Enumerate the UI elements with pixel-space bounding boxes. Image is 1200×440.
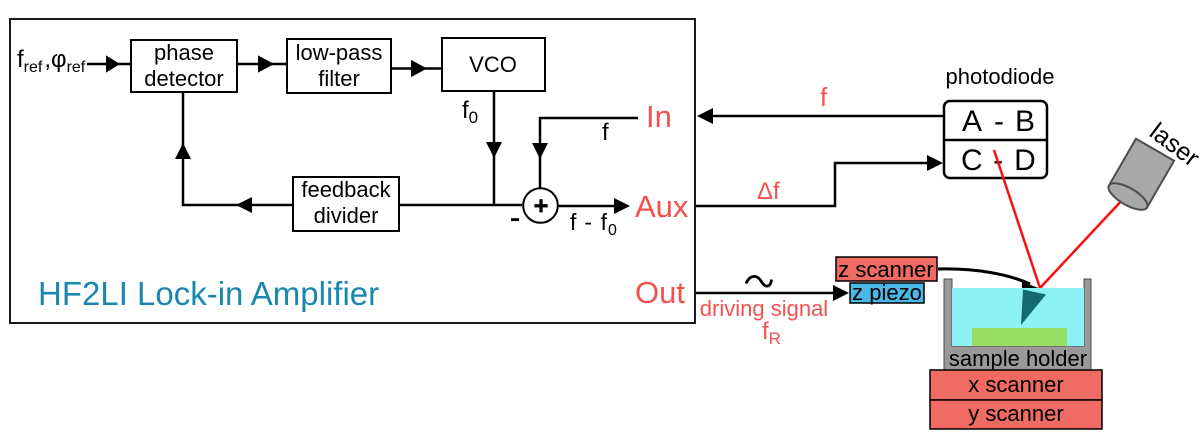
wire phase detector to low-pass filter [237,55,287,72]
box y scanner [930,400,1102,429]
wire feedback up into phase detector (vertical) [175,92,191,206]
wire feedback divider to summing node [399,204,522,207]
wire photodiode A-B to In [697,108,943,124]
wire summing node to Aux [558,198,630,214]
wire Out to z piezo [696,285,849,301]
wire feedback divider to phase detector (horizontal) [182,197,293,213]
svg-text:Δf: Δf [757,178,780,205]
sine symbol on Out wire [746,276,772,286]
box phase detector [131,40,237,92]
box feedback divider [293,177,399,231]
svg-text:sample holder: sample holder [949,346,1087,371]
laser body [1105,139,1174,215]
liquid (cyan) [952,288,1084,346]
wire z scanner to tip (curved) [938,269,1041,292]
wire Aux to photodiode C-D [696,155,943,206]
svg-text:f: f [602,119,609,146]
wire VCO output down to feedback line [486,91,502,206]
svg-text:feedback: feedback [301,177,391,202]
svg-text:x scanner: x scanner [968,372,1063,397]
cantilever tip (dark teal) [1021,290,1046,326]
svg-text:A-B: A-B [962,105,1035,138]
box z scanner [836,257,937,282]
svg-text:filter: filter [318,66,360,91]
svg-text:phase: phase [154,40,214,65]
svg-text:VCO: VCO [469,52,517,77]
box x scanner [930,370,1102,400]
laser beam from laser (red) [1040,197,1125,288]
svg-text:Aux: Aux [635,189,689,224]
laser beam to photodiode (red) [994,150,1040,288]
box low-pass filter [287,39,391,93]
svg-text:z scanner: z scanner [838,257,933,282]
HF2LI lock-in amplifier enclosure box [10,19,695,323]
label minus at summing node [511,218,519,221]
svg-text:divider: divider [314,203,379,228]
box VCO [442,38,545,91]
svg-text:Out: Out [635,275,685,310]
svg-text:z piezo: z piezo [852,280,922,305]
wire low-pass filter to VCO [391,60,442,77]
svg-text:In: In [646,99,672,134]
box photodiode A-B / C-D [944,101,1047,178]
sample (green) [972,328,1067,346]
summing node + [523,188,558,223]
svg-text:f: f [820,82,828,112]
svg-text:HF2LI Lock-in Amplifier: HF2LI Lock-in Amplifier [38,275,379,312]
wire In label down to summing node [532,118,638,189]
svg-text:photodiode: photodiode [946,64,1055,89]
svg-text:detector: detector [144,66,224,91]
box z piezo [850,280,924,305]
svg-text:low-pass: low-pass [296,40,383,65]
svg-text:y scanner: y scanner [968,401,1063,426]
sample holder container (gray U) [944,279,1091,370]
wire f_ref input arrow [87,55,131,72]
